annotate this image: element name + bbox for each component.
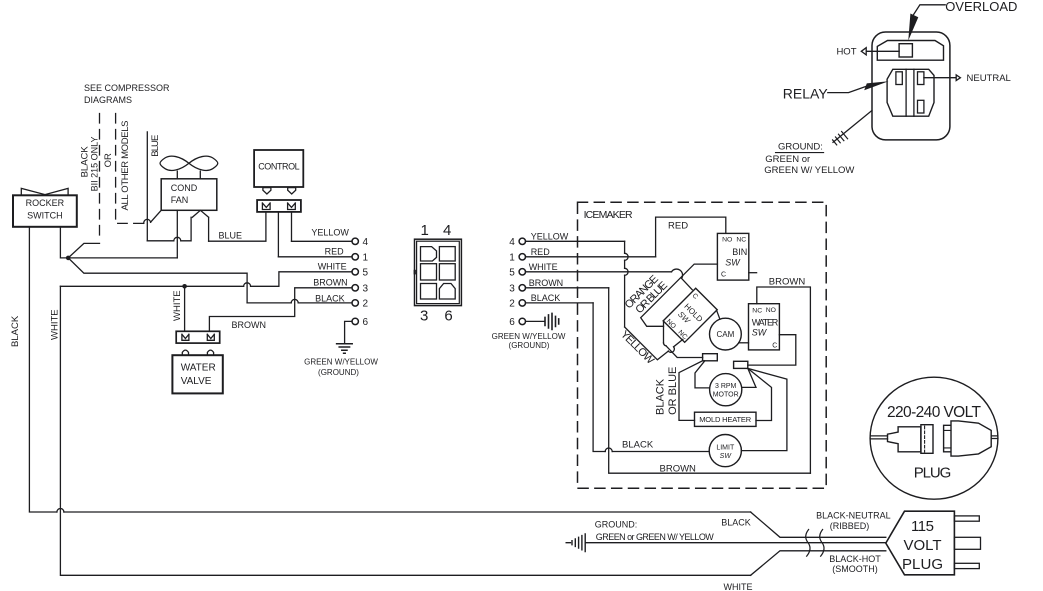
wire: M-box right lead (yellow)	[291, 212, 293, 241]
svg-text:NO: NO	[665, 318, 677, 330]
svg-text:2: 2	[363, 299, 369, 310]
label GROUND: GREEN or GREEN W/ YELLOW	[764, 141, 854, 176]
svg-text:6: 6	[444, 307, 452, 324]
svg-text:WATER: WATER	[181, 363, 216, 374]
svg-text:4: 4	[363, 237, 369, 248]
svg-text:PLUG: PLUG	[902, 556, 943, 573]
115V plug prong bottom	[954, 563, 979, 568]
wire: yellow vertical into icemaker with hops	[624, 241, 626, 327]
svg-text:OR BLUE: OR BLUE	[667, 367, 679, 415]
svg-text:SW: SW	[752, 328, 768, 338]
label GROUND: GREEN or GREEN W/ YELLOW (cable)	[595, 520, 715, 543]
wire: dashed branch BII 215 ONLY (vertical)	[99, 114, 101, 242]
control box	[254, 150, 303, 187]
label OVERLOAD with leader arrow	[908, 0, 1017, 41]
svg-text:WHITE: WHITE	[724, 582, 753, 591]
ground symbol (earth, left connector)	[337, 344, 353, 354]
220V male connector body	[888, 425, 934, 454]
svg-text:YELLOW: YELLOW	[311, 228, 349, 238]
svg-text:WHITE: WHITE	[172, 290, 183, 321]
wire hop: yellow over red	[625, 253, 629, 260]
relay body octagon	[887, 69, 934, 116]
svg-text:4: 4	[509, 237, 515, 248]
wire: junction to cond fan lead	[70, 257, 177, 259]
svg-text:BLACK-HOT: BLACK-HOT	[829, 554, 881, 564]
terminal circle 4 (left)	[352, 238, 358, 244]
svg-text:5: 5	[509, 268, 515, 279]
wire: white main corner and vertical down	[60, 286, 750, 575]
label RELAY with leader arrow	[783, 81, 889, 101]
svg-text:BLUE: BLUE	[219, 230, 243, 240]
wire: blue horizontal under cond fan	[147, 217, 191, 241]
svg-text:RED: RED	[325, 246, 345, 256]
svg-text:4: 4	[443, 222, 451, 239]
svg-text:ROCKER: ROCKER	[26, 198, 65, 208]
water valve terminal strip	[176, 331, 220, 343]
wire: rocker right lead to junction	[60, 227, 66, 258]
wire hop: black over brown vertical	[605, 448, 612, 452]
terminal circle 6 (left) with wire to ground	[352, 318, 358, 324]
ground wire bar symbol (cable)	[566, 534, 585, 552]
svg-text:3 RPM: 3 RPM	[715, 383, 737, 390]
wire hop: white over black vertical	[244, 283, 251, 286]
water valve box with pins	[172, 350, 222, 393]
wire: tab1 to motor left	[695, 361, 710, 388]
wire: red to terminal 1	[278, 256, 352, 258]
wire: hold switch to cam	[717, 310, 720, 319]
label BLACK-NEUTRAL (RIBBED)	[816, 511, 891, 531]
svg-text:GREEN W/ YELLOW: GREEN W/ YELLOW	[764, 165, 854, 176]
wire: black cable lead into 115V plug	[751, 512, 886, 537]
svg-text:(RIBBED): (RIBBED)	[830, 521, 870, 531]
svg-text:BLUE: BLUE	[150, 135, 161, 157]
svg-text:BIN: BIN	[732, 247, 747, 257]
wire: NEUTRAL terminal with open arrow	[924, 73, 1011, 84]
wire: yellow diagonal to hold switch NC	[625, 327, 683, 360]
wire: junction to dashed BII branch	[68, 243, 99, 258]
terminal circle 2 (left)	[352, 300, 358, 306]
wire: black run to terminal 2 with hop over brown	[247, 302, 352, 304]
svg-text:PLUG: PLUG	[914, 464, 952, 481]
wire: white horizontal to valve junction and terminal 5	[60, 272, 352, 287]
svg-text:SEE COMPRESSOR: SEE COMPRESSOR	[84, 83, 170, 93]
svg-text:ALL OTHER MODELS: ALL OTHER MODELS	[120, 121, 131, 211]
terminal circle 5 (left)	[352, 269, 358, 275]
svg-text:BROWN: BROWN	[232, 320, 267, 330]
svg-text:BROWN: BROWN	[769, 276, 806, 287]
node: junction to water valve	[182, 284, 187, 289]
svg-text:NO: NO	[722, 237, 732, 244]
note: see compressor diagrams	[84, 83, 170, 105]
svg-text:HOT: HOT	[836, 47, 856, 58]
wire: water switch C to connector 2	[748, 335, 796, 365]
220-240 volt plug detail circle	[870, 377, 998, 499]
mold heater box	[695, 412, 757, 426]
svg-text:CAM: CAM	[717, 330, 735, 339]
svg-text:BROWN: BROWN	[529, 278, 564, 288]
220V female connector body	[944, 421, 992, 456]
label BLACK-HOT (SMOOTH)	[829, 554, 881, 574]
svg-text:5: 5	[363, 268, 369, 279]
wire: tab2 to mold heater right	[748, 368, 772, 420]
connector block (6-pin)	[414, 222, 462, 325]
220V female connector lead	[991, 436, 998, 439]
svg-text:GREEN or: GREEN or	[765, 154, 810, 165]
svg-text:WHITE: WHITE	[318, 261, 347, 271]
svg-text:C: C	[691, 292, 699, 300]
wire: rocker left lead (black main, down left side)	[29, 227, 750, 512]
ground symbol (right, bar style)	[545, 313, 559, 329]
wire: M-box middle lead (red)	[277, 212, 279, 257]
svg-text:NC: NC	[752, 307, 762, 314]
svg-text:COND: COND	[171, 183, 198, 193]
svg-text:DIAGRAMS: DIAGRAMS	[84, 95, 132, 105]
wire hop: black over brown vertical	[291, 299, 298, 302]
wire: cond fan left lead down	[176, 210, 178, 258]
relay slot upper right	[918, 72, 924, 85]
svg-text:CONTROL: CONTROL	[258, 162, 300, 172]
svg-text:MOTOR: MOTOR	[713, 392, 739, 399]
svg-text:YELLOW: YELLOW	[618, 328, 657, 367]
cable break squiggles	[806, 530, 810, 557]
svg-text:GREEN W/YELLOW: GREEN W/YELLOW	[304, 357, 378, 366]
relay slot left	[896, 72, 902, 85]
ground leader from housing	[833, 111, 872, 143]
svg-text:6: 6	[363, 317, 369, 328]
cam circle	[710, 318, 742, 350]
wire: brown vertical and bottom run	[609, 288, 811, 473]
control terminal pins (2)	[263, 188, 296, 194]
svg-text:ICEMAKER: ICEMAKER	[584, 209, 633, 221]
overload component square	[899, 44, 912, 57]
wire hop: blue horizontal over fan left lead	[174, 237, 181, 240]
svg-text:WATER: WATER	[752, 318, 779, 328]
terminal circle 1 (left)	[352, 254, 358, 260]
svg-text:BLACK-NEUTRAL: BLACK-NEUTRAL	[816, 511, 891, 521]
svg-text:6: 6	[509, 317, 515, 328]
svg-text:1: 1	[421, 222, 429, 239]
svg-text:NEUTRAL: NEUTRAL	[967, 73, 1011, 84]
relay slot lower right	[918, 100, 924, 113]
wire: black vertical and run to limit switch with hop	[593, 303, 709, 452]
cond fan blade symbol	[160, 156, 218, 170]
wire: motor right to tab2	[742, 368, 756, 387]
svg-text:SWITCH: SWITCH	[27, 211, 63, 221]
wire: solid diagonal from dashed branch to cond fan corner	[151, 210, 162, 222]
wire hop: orange/blue over yellow arm	[664, 343, 667, 346]
svg-text:3: 3	[509, 284, 515, 295]
svg-text:1: 1	[363, 253, 369, 264]
svg-text:BROWN: BROWN	[313, 278, 348, 288]
svg-text:SW: SW	[725, 257, 741, 267]
connector tab 2 (motor/heater link)	[734, 361, 748, 368]
svg-text:FAN: FAN	[171, 195, 189, 205]
115V plug prong middle (ground)	[954, 537, 980, 549]
svg-text:MOLD HEATER: MOLD HEATER	[699, 415, 752, 424]
wire: cond fan bottom split (lambda) to blue wires	[192, 210, 208, 241]
svg-text:3: 3	[420, 307, 428, 324]
svg-text:GROUND:: GROUND:	[778, 141, 823, 152]
wire: yellow to terminal 4	[292, 240, 353, 242]
svg-text:BLACK: BLACK	[721, 517, 751, 527]
svg-text:GROUND:: GROUND:	[595, 520, 638, 530]
svg-text:WHITE: WHITE	[50, 309, 61, 340]
wire: white cable lead into 115V plug	[751, 551, 886, 576]
svg-text:NC: NC	[736, 236, 746, 243]
ground hatch marks	[833, 132, 848, 145]
wire: brown from water switch top to brown bus	[757, 287, 811, 473]
svg-text:WHITE: WHITE	[529, 262, 558, 272]
overload band	[877, 41, 943, 61]
svg-text:OVERLOAD: OVERLOAD	[945, 0, 1017, 14]
220V male connector wire leads	[870, 436, 887, 439]
svg-text:VOLT: VOLT	[904, 537, 942, 554]
115 volt plug body	[886, 511, 955, 575]
svg-text:BLACK: BLACK	[622, 440, 654, 451]
svg-text:BROWN: BROWN	[660, 463, 697, 474]
svg-text:NC: NC	[676, 329, 688, 341]
wire hop: black bottom over white vertical	[57, 509, 64, 512]
svg-text:RELAY: RELAY	[783, 85, 829, 101]
wire: cam to water switch	[739, 342, 749, 344]
wire: green ground cable lead	[585, 542, 886, 544]
wire: red up and over to bin switch	[656, 217, 726, 257]
wire: orange/blue from bin switch to connector	[641, 264, 718, 357]
svg-text:(GROUND): (GROUND)	[318, 368, 359, 377]
svg-text:220-240 VOLT: 220-240 VOLT	[887, 404, 982, 421]
wire hop: dashed branch over blue wire	[144, 219, 151, 223]
node: junction at rocker feed	[66, 256, 71, 261]
wire: junction diagonal to black run	[68, 258, 247, 303]
svg-text:2: 2	[509, 299, 515, 310]
label GREEN W/YELLOW (GROUND) left	[304, 357, 378, 377]
wire: white into hold switch C with hop over orange/blue	[672, 269, 693, 290]
svg-text:C: C	[721, 272, 726, 279]
svg-text:RED: RED	[668, 220, 688, 231]
svg-text:SW: SW	[720, 453, 733, 460]
svg-text:GREEN or GREEN W/ YELLOW: GREEN or GREEN W/ YELLOW	[596, 532, 715, 542]
control connector box with M terminals	[257, 200, 301, 212]
bin switch	[717, 233, 748, 280]
svg-text:BLACK: BLACK	[531, 293, 561, 303]
rocker switch	[13, 188, 77, 226]
wire: HOT terminal with open arrow	[836, 47, 899, 58]
wire: blue horizontal to M-box left terminal	[209, 212, 266, 241]
water switch	[749, 304, 780, 350]
svg-text:LIMIT: LIMIT	[716, 444, 735, 451]
terminal circle 3 (left)	[352, 285, 358, 291]
svg-text:NO: NO	[766, 307, 776, 314]
wire: black-or-blue from tab1 to mold heater	[679, 361, 703, 421]
svg-text:GREEN W/YELLOW: GREEN W/YELLOW	[492, 332, 566, 341]
wire: tab2 to limit switch right	[741, 368, 787, 450]
svg-text:1: 1	[509, 253, 515, 264]
label GREEN W/YELLOW (GROUND) right	[492, 332, 566, 350]
wire: bin switch C stub	[749, 272, 757, 274]
wire: fan blade leads to cond fan box	[177, 171, 200, 179]
relay/overload outer housing	[872, 32, 950, 140]
wire: brown from valve right terminal	[209, 288, 352, 332]
svg-text:115: 115	[911, 518, 934, 535]
svg-text:C: C	[772, 342, 777, 349]
relay center channel	[906, 69, 914, 116]
cond fan box	[161, 179, 217, 211]
115V plug prong top	[954, 516, 979, 521]
label BLACK OR BLUE (rotated)	[655, 367, 679, 415]
svg-text:OR: OR	[103, 153, 114, 167]
svg-text:3: 3	[363, 284, 369, 295]
svg-text:VALVE: VALVE	[181, 376, 212, 387]
svg-text:BLACK: BLACK	[315, 293, 345, 303]
svg-text:BLACK: BLACK	[10, 315, 21, 347]
svg-text:BII 215 ONLY: BII 215 ONLY	[90, 137, 100, 192]
wire: stub to hold switch NO corner	[663, 321, 665, 327]
svg-text:RED: RED	[531, 247, 551, 257]
wire hop: yellow over white	[625, 268, 629, 275]
svg-text:BLACK: BLACK	[655, 378, 667, 415]
svg-text:(GROUND): (GROUND)	[509, 341, 550, 350]
wire: dashed branch ALL OTHER MODELS (vertical + horizontal to cond fan)	[116, 114, 144, 224]
wire: junction down to water valve left terminal	[184, 286, 186, 331]
label ORANGE OR BLUE (diagonal)	[623, 272, 670, 319]
icemaker dashed border	[578, 202, 827, 488]
wire hop: yellow arm over orange/blue	[668, 347, 674, 353]
hold switch (rotated 45)	[663, 288, 717, 342]
motor circle (3 RPM)	[710, 374, 742, 406]
wire: blue lead (vertical from top)	[146, 132, 148, 241]
connector tab 1 (cam/motor link)	[703, 354, 718, 361]
svg-text:(SMOOTH): (SMOOTH)	[832, 564, 878, 574]
svg-text:YELLOW: YELLOW	[531, 231, 569, 241]
limit switch circle	[709, 435, 741, 467]
